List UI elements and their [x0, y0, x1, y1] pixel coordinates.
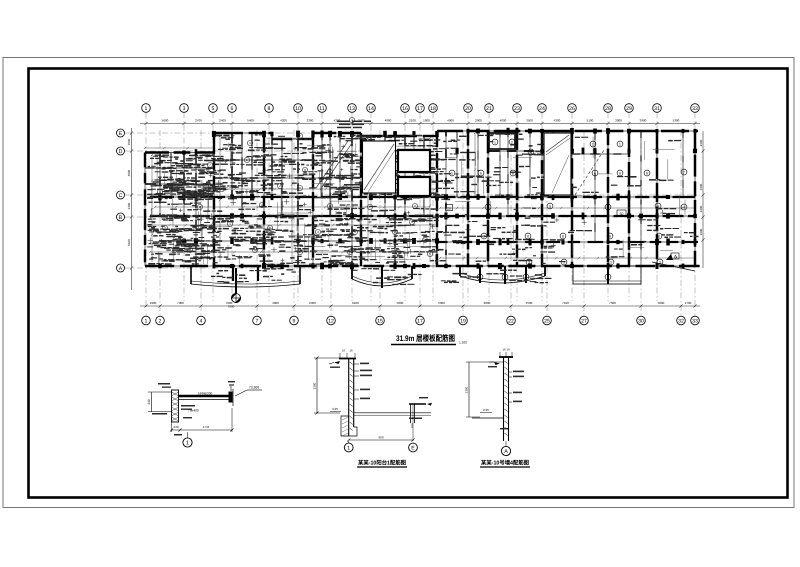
svg-text:14: 14: [368, 106, 374, 112]
interior thin detail lines: [150, 136, 685, 264]
svg-text:9: 9: [607, 205, 609, 209]
svg-text:21: 21: [486, 106, 492, 112]
svg-text:1500: 1500: [127, 138, 131, 145]
interior dimension chains: [144, 132, 695, 262]
svg-text:3300: 3300: [127, 202, 131, 209]
svg-text:8: 8: [562, 234, 564, 238]
svg-text:15: 15: [377, 318, 383, 324]
section cut marker A: [652, 254, 695, 271]
svg-text:4200: 4200: [280, 119, 287, 123]
svg-text:32: 32: [678, 318, 684, 324]
svg-text:5100: 5100: [587, 119, 594, 123]
svg-text:4900: 4900: [447, 119, 454, 123]
svg-text:22: 22: [508, 318, 514, 324]
svg-text:某某-10阳台1配筋图: 某某-10阳台1配筋图: [357, 460, 406, 467]
svg-text:25: 25: [544, 318, 550, 324]
svg-text:26: 26: [569, 106, 575, 112]
svg-text:C: C: [119, 193, 123, 199]
svg-text:1: 1: [347, 446, 350, 452]
svg-text:4300: 4300: [554, 119, 561, 123]
svg-text:3: 3: [414, 204, 416, 208]
svg-text:7500: 7500: [609, 301, 616, 305]
stair flight diagonals: [316, 133, 604, 195]
svg-text:3: 3: [563, 260, 565, 264]
svg-text:12: 12: [328, 318, 334, 324]
svg-text:6: 6: [480, 171, 482, 175]
svg-text:2700: 2700: [195, 119, 202, 123]
balcony center arc: [352, 266, 412, 288]
svg-text:1700: 1700: [685, 301, 692, 305]
svg-text:3000: 3000: [615, 119, 622, 123]
svg-text:2100: 2100: [409, 119, 416, 123]
svg-text:2900: 2900: [475, 119, 482, 123]
svg-text:30: 30: [638, 318, 644, 324]
svg-text:6100: 6100: [352, 301, 359, 305]
svg-text:7000: 7000: [228, 305, 235, 309]
svg-text:B: B: [119, 215, 123, 221]
svg-text:16: 16: [349, 349, 353, 353]
svg-text:9: 9: [487, 205, 489, 209]
svg-text:1900: 1900: [150, 301, 157, 305]
room number circles right wing: [449, 139, 687, 280]
svg-text:8: 8: [609, 234, 611, 238]
svg-text:8: 8: [268, 106, 271, 112]
svg-text:2400: 2400: [309, 301, 316, 305]
svg-text:33: 33: [692, 318, 698, 324]
annotation text specks: [147, 133, 698, 285]
stair shaft white patches: [363, 133, 572, 195]
svg-text:1: 1: [494, 140, 496, 144]
svg-text:4500: 4500: [526, 301, 533, 305]
svg-text:19: 19: [460, 318, 466, 324]
balcony right arc: [460, 266, 545, 284]
svg-text:1: 1: [619, 142, 621, 146]
svg-text:2600: 2600: [699, 228, 703, 235]
svg-text:6: 6: [594, 171, 596, 175]
svg-text:2: 2: [504, 275, 506, 279]
svg-text:2: 2: [279, 184, 281, 188]
svg-text:8: 8: [527, 234, 529, 238]
svg-text:7: 7: [299, 134, 301, 138]
svg-text:7: 7: [256, 318, 259, 324]
svg-text:18: 18: [430, 106, 436, 112]
svg-text:240: 240: [173, 425, 178, 429]
top grid bubbles: [142, 104, 151, 113]
svg-text:8: 8: [619, 171, 621, 175]
svg-text:7: 7: [683, 170, 685, 174]
svg-text:1800: 1800: [423, 119, 430, 123]
svg-text:7: 7: [209, 163, 211, 167]
svg-text:75e400: 75e400: [188, 409, 199, 413]
svg-text:23: 23: [514, 106, 520, 112]
svg-text:4600: 4600: [272, 301, 279, 305]
svg-text:2: 2: [525, 275, 527, 279]
svg-text:3: 3: [659, 260, 661, 264]
bottom dimension line: [140, 304, 700, 307]
svg-text:4000: 4000: [500, 119, 507, 123]
svg-text:2: 2: [329, 170, 331, 174]
svg-text:4: 4: [200, 318, 203, 324]
vertical grid axis lines: [146, 113, 695, 316]
svg-text:6000: 6000: [484, 301, 491, 305]
svg-text:A: A: [119, 266, 123, 272]
balcony left (entrance porch): [191, 266, 300, 287]
detail drawing 2: wall section with slab: [313, 349, 433, 452]
svg-text:2: 2: [159, 318, 162, 324]
bottom grid bubbles: [142, 316, 151, 325]
svg-text:10: 10: [295, 106, 301, 112]
building outer and inner walls: [145, 131, 700, 266]
svg-text:28: 28: [605, 106, 611, 112]
svg-text:2600: 2600: [699, 205, 703, 212]
svg-text:11: 11: [319, 106, 324, 112]
svg-text:16: 16: [342, 349, 346, 353]
svg-text:7100: 7100: [562, 301, 569, 305]
svg-text:4: 4: [317, 230, 319, 234]
top dimension numbers: [162, 119, 680, 123]
svg-text:5400: 5400: [247, 119, 254, 123]
svg-text:4500: 4500: [127, 169, 131, 176]
svg-text:20: 20: [465, 106, 471, 112]
svg-text:1744: 1744: [203, 425, 210, 429]
svg-text:3.95: 3.95: [332, 407, 338, 411]
left dimension line: [130, 128, 133, 290]
svg-text:50: 50: [620, 212, 624, 216]
svg-text:3500: 3500: [526, 119, 533, 123]
elevator shafts redraw: [398, 150, 430, 196]
svg-text:9: 9: [549, 204, 551, 208]
svg-text:3300: 3300: [307, 119, 314, 123]
svg-text:3300: 3300: [465, 386, 469, 393]
small boxed marks corridor: [446, 205, 680, 260]
svg-text:2600: 2600: [699, 139, 703, 146]
svg-text:5600: 5600: [162, 119, 169, 123]
right dimension line: [702, 131, 704, 268]
svg-text:5: 5: [451, 171, 453, 175]
svg-text:5300: 5300: [673, 119, 680, 123]
inner thick sheet frame: [29, 69, 788, 498]
section circle symbol: [232, 268, 241, 303]
svg-text:16 16: 16 16: [503, 348, 510, 352]
svg-text:8: 8: [658, 234, 660, 238]
svg-text:6: 6: [231, 106, 234, 112]
notes text block: [337, 121, 371, 129]
svg-text:3: 3: [610, 260, 612, 264]
svg-text:5000: 5000: [658, 301, 665, 305]
left wing small circles: [157, 117, 432, 256]
svg-text:5300: 5300: [438, 301, 445, 305]
svg-text:31: 31: [654, 106, 660, 112]
svg-text:1: 1: [229, 222, 231, 226]
svg-text:16: 16: [402, 106, 408, 112]
svg-text:2: 2: [511, 140, 513, 144]
svg-text:2.95: 2.95: [483, 408, 489, 412]
svg-text:1: 1: [145, 318, 148, 324]
svg-text:D: D: [119, 149, 123, 155]
svg-text:8: 8: [646, 171, 648, 175]
svg-text:7900: 7900: [177, 301, 184, 305]
svg-text:26: 26: [447, 207, 451, 211]
svg-text:E: E: [119, 131, 123, 137]
svg-text:9: 9: [293, 318, 296, 324]
svg-text:1: 1: [186, 441, 189, 447]
bottom dimension numbers: [150, 301, 692, 305]
detail drawing 1: column-beam section: [147, 381, 262, 447]
svg-text:3300: 3300: [313, 382, 317, 389]
svg-text:24: 24: [539, 106, 545, 112]
svg-text:2600: 2600: [699, 183, 703, 190]
svg-text:240: 240: [147, 399, 151, 405]
elevator shafts: [398, 133, 515, 196]
svg-text:31.9m 层楼板配筋图: 31.9m 层楼板配筋图: [396, 334, 455, 343]
svg-text:4800: 4800: [385, 119, 392, 123]
detail drawing 3: wall section: [465, 348, 525, 456]
svg-text:73.300: 73.300: [249, 386, 259, 390]
svg-text:A: A: [504, 449, 508, 455]
balcony far right rect: [573, 266, 641, 284]
svg-text:1Φ8@200: 1Φ8@200: [198, 392, 213, 396]
svg-text:E: E: [411, 446, 415, 452]
svg-text:29: 29: [626, 106, 632, 112]
left dimension numbers: [127, 138, 131, 246]
svg-text:900: 900: [378, 436, 383, 440]
left letter bubbles: [117, 129, 125, 137]
top dimension line: [140, 122, 700, 125]
svg-text:5: 5: [212, 106, 215, 112]
svg-text:2: 2: [607, 275, 609, 279]
svg-text:2400: 2400: [219, 119, 226, 123]
svg-text:1: 1: [145, 106, 148, 112]
svg-text:1:100: 1:100: [459, 341, 467, 345]
svg-text:3900: 3900: [640, 119, 647, 123]
svg-text:3: 3: [183, 106, 186, 112]
svg-text:13: 13: [349, 106, 355, 112]
svg-text:5000: 5000: [397, 301, 404, 305]
svg-text:17: 17: [417, 318, 423, 324]
svg-text:27: 27: [581, 318, 587, 324]
svg-text:1: 1: [246, 158, 248, 162]
svg-text:5100: 5100: [127, 239, 131, 246]
svg-text:33: 33: [692, 106, 698, 112]
svg-text:6: 6: [299, 186, 301, 190]
svg-text:1: 1: [249, 141, 251, 145]
svg-text:17: 17: [417, 106, 423, 112]
outer thin sheet frame: [3, 58, 794, 508]
column sections (black blobs): [158, 128, 697, 270]
horizontal grid axis lines (letters): [125, 133, 701, 268]
svg-text:某某-10号墙4配筋图: 某某-10号墙4配筋图: [480, 460, 529, 467]
